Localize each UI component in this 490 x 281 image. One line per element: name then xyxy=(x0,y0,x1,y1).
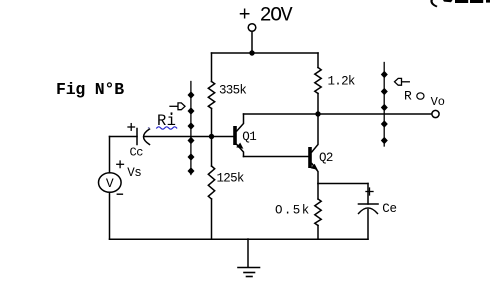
svg-text:125k: 125k xyxy=(217,171,244,185)
svg-text:Fig N°B: Fig N°B xyxy=(56,80,124,99)
svg-text:+ 2OV: + 2OV xyxy=(239,4,293,27)
svg-text:Ce: Ce xyxy=(382,202,396,216)
svg-text:O.5k: O.5k xyxy=(275,203,311,217)
svg-text:Cc: Cc xyxy=(130,146,144,160)
svg-text:Vo: Vo xyxy=(431,95,445,109)
svg-text:R: R xyxy=(404,88,412,103)
svg-text:335k: 335k xyxy=(219,84,246,98)
svg-text:Q1: Q1 xyxy=(242,130,256,144)
svg-text:Vs: Vs xyxy=(127,166,141,180)
svg-text:1.2k: 1.2k xyxy=(328,75,355,89)
svg-text:V: V xyxy=(106,176,114,191)
svg-text:Q2: Q2 xyxy=(319,151,333,165)
svg-text:Ri: Ri xyxy=(157,112,176,130)
